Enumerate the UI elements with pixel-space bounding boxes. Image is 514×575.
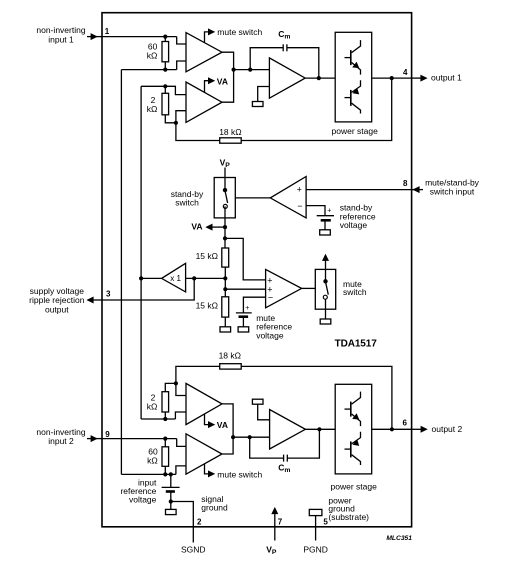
- wire VA arrow left: [205, 224, 225, 231]
- wire Cm branch ch2: [250, 437, 284, 458]
- label supply voltage ripple rejection output: [29, 286, 85, 314]
- wire divider mid to x1 buffer: [141, 277, 225, 279]
- wire pin 3: [102, 278, 194, 300]
- svg-text:ground: ground: [201, 503, 228, 513]
- wire VA rail to 2k top: [141, 85, 165, 87]
- wire pin 5 PGND: [315, 516, 317, 541]
- resistor R8 60 kOhm body ch2: [162, 439, 169, 475]
- wire external output 2 with arrow: [412, 426, 428, 433]
- wire external mute/stand-by input with arrow: [412, 186, 423, 193]
- ground symbol mute reference: [238, 327, 249, 332]
- mute switch open contact: [323, 295, 327, 299]
- node pin9 label: non-inverting input 2: [36, 427, 85, 446]
- mute switch contact dot: [323, 279, 327, 283]
- node junction link ch2: [231, 435, 235, 439]
- wire Cm to output ch2: [287, 429, 319, 458]
- svg-text:mute switch: mute switch: [217, 469, 262, 479]
- wire power stage to pin 6: [372, 428, 412, 430]
- node junction VA: [223, 225, 227, 229]
- resistor R7 2 kOhm body ch2: [162, 383, 176, 419]
- svg-text:output 1: output 1: [431, 73, 462, 83]
- transistor Q4 PNP ch2: [345, 432, 361, 465]
- node junction Cm tap ch2: [248, 435, 252, 439]
- svg-text:1: 1: [105, 27, 110, 36]
- node junction 60k bottom: [163, 68, 167, 72]
- node junction output 1: [390, 76, 394, 80]
- op-amp A6 power op-amp ch2: [270, 410, 306, 450]
- node junction link: [232, 68, 236, 72]
- capacitor input reference voltage: [162, 487, 180, 509]
- wire A1/A2 output link: [222, 52, 234, 102]
- label mute reference voltage: [256, 313, 292, 341]
- resistor R2 2 kOhm body: [162, 86, 176, 123]
- op-amp A1 input stage 1: [186, 33, 222, 72]
- wire mute switch control arrow ch1: [205, 28, 216, 42]
- svg-text:kΩ: kΩ: [147, 401, 158, 411]
- svg-text:x 1: x 1: [170, 274, 181, 283]
- wire rail B left (VA bias bus): [140, 86, 142, 419]
- wire power stage to pin 4: [372, 77, 412, 79]
- wire divider lower to mute comparator: [225, 288, 265, 290]
- label input reference voltage: [120, 478, 157, 505]
- label stand-by reference voltage: [340, 203, 376, 231]
- wire jog to op-amp A1 + input: [177, 37, 186, 44]
- node junction signal ground tap: [169, 499, 173, 503]
- resistor R5 15 kOhm body: [222, 289, 229, 327]
- svg-text:voltage: voltage: [129, 494, 157, 504]
- wire jog to op-amp A1 - input: [177, 61, 186, 70]
- svg-text:power stage: power stage: [331, 481, 378, 491]
- svg-text:+: +: [327, 208, 331, 215]
- wire feedback to output 2: [241, 366, 392, 429]
- svg-text:6: 6: [403, 419, 408, 428]
- svg-text:input 2: input 2: [48, 436, 74, 446]
- wire switch to VA node: [224, 206, 226, 248]
- wire feedback ch2: [176, 366, 220, 383]
- transistor Q1 NPN ch1: [345, 40, 361, 75]
- node junction Cm tap ch1: [248, 68, 252, 72]
- node junction 2k bottom ch2: [163, 417, 167, 421]
- node junction Cm output ch2: [317, 427, 321, 431]
- stand-by switch contact dot: [223, 188, 227, 192]
- op-amp A3 power op-amp ch1: [269, 58, 305, 98]
- wire power amp out to power stage ch2: [305, 428, 335, 430]
- wire Cm to output ch1: [287, 48, 319, 78]
- wire pin 8 input: [306, 189, 412, 191]
- resistor R3 18 kOhm body: [220, 138, 242, 143]
- wire signal ground to pin 2: [171, 502, 194, 543]
- svg-text:15 kΩ: 15 kΩ: [196, 251, 218, 261]
- svg-text:VA: VA: [191, 222, 202, 232]
- node junction inverting ch1: [174, 121, 178, 125]
- ground symbol power amp ch2: [252, 399, 263, 404]
- svg-text:+: +: [297, 185, 302, 195]
- wire 60k bottom feedback ch2: [121, 473, 175, 475]
- wire ground stub power amp ch2: [258, 404, 270, 420]
- ground symbol stand-by reference: [320, 230, 331, 235]
- svg-text:switch: switch: [343, 287, 367, 297]
- svg-text:voltage: voltage: [340, 220, 368, 230]
- wire Cm branch ch1: [250, 48, 283, 70]
- svg-text:output 2: output 2: [432, 424, 463, 434]
- node junction input1: [163, 35, 167, 39]
- wire jog to op-amp A4 + input: [175, 412, 186, 419]
- wire jog to op-amp A2 + input: [165, 86, 186, 94]
- wire pin 7 VP with arrow: [271, 507, 278, 541]
- wire VA control arrow ch1: [205, 77, 216, 92]
- label stand-by switch: [171, 189, 204, 208]
- power ground symbol PGND: [309, 509, 322, 515]
- wire feedback ch1: [176, 123, 220, 141]
- svg-text:power stage: power stage: [332, 126, 379, 136]
- svg-text:−: −: [297, 201, 302, 211]
- node junction input2: [163, 437, 167, 441]
- value label 2 kOhm ch2: [147, 392, 158, 411]
- wire to power amp 2: [233, 436, 270, 438]
- node junction Cm output ch1: [317, 76, 321, 80]
- svg-text:kΩ: kΩ: [147, 104, 158, 114]
- svg-text:9: 9: [105, 430, 110, 439]
- node junction input reference tap: [169, 472, 173, 476]
- ground symbol input reference: [166, 509, 177, 514]
- wire feedback to output 1: [241, 78, 392, 140]
- op-amp U3 x1 buffer: [162, 263, 186, 292]
- svg-text:VA: VA: [217, 420, 228, 430]
- svg-text:TDA1517: TDA1517: [335, 338, 378, 349]
- node junction inverting ch2: [174, 381, 178, 385]
- svg-text:SGND: SGND: [181, 545, 206, 555]
- resistor R4 15 kOhm body: [222, 248, 229, 289]
- svg-text:(substrate): (substrate): [328, 512, 369, 522]
- wire rail B to 2k bottom ch2: [141, 418, 175, 420]
- svg-text:8: 8: [403, 179, 408, 188]
- transistor Q3 NPN ch2: [345, 392, 361, 427]
- transistor Q2 PNP ch1: [345, 80, 361, 113]
- op-amp U2 stand-by comparator: [270, 177, 306, 218]
- value label 60 kOhm ch2: [147, 447, 158, 466]
- node junction pin3 tap: [192, 276, 196, 280]
- wire external input 2 with arrow: [87, 435, 102, 442]
- svg-text:2: 2: [197, 518, 202, 527]
- stand-by switch lever: [225, 191, 228, 204]
- node junction output 2: [390, 427, 394, 431]
- capacitor Cm ch1: [283, 44, 287, 51]
- wire U4 output to mute switch: [302, 287, 316, 289]
- wire U4 - input to mute reference: [243, 297, 265, 313]
- svg-text:MLC351: MLC351: [386, 535, 412, 542]
- label signal ground: [201, 494, 228, 512]
- wire A4/A5 output link: [222, 404, 233, 454]
- power stage box ch1: [335, 32, 372, 122]
- wire external ripple rejection with arrow: [86, 297, 102, 304]
- svg-text:7: 7: [278, 518, 283, 527]
- resistor R1 60 kOhm body: [162, 37, 169, 70]
- svg-text:kΩ: kΩ: [147, 456, 158, 466]
- wire external output 1 with arrow: [412, 75, 428, 82]
- wire stub to op-amp A5 - input: [176, 466, 186, 475]
- battery stand-by reference voltage: [317, 208, 334, 230]
- value label 2 kOhm: [147, 95, 158, 114]
- wire mute switch to ground: [325, 299, 327, 319]
- ground symbol mute switch: [320, 319, 331, 324]
- wire ground stub power amp ch1: [258, 87, 270, 102]
- wire input 1: [102, 36, 177, 38]
- wire input reference capacitor: [170, 474, 172, 487]
- wire stand-by switch to comparator: [235, 197, 270, 199]
- wire jog to op-amp A5 + input: [177, 439, 186, 447]
- wire mute switch arrow up: [322, 254, 329, 282]
- svg-text:18 kΩ: 18 kΩ: [219, 350, 241, 360]
- wire VP to stand-by switch: [224, 168, 226, 191]
- label power ground (substrate): [328, 495, 369, 522]
- resistor R6 18 kOhm body ch2: [220, 364, 242, 369]
- stand-by switch open contact: [223, 204, 227, 208]
- op-amp A5 input stage 2: [186, 434, 222, 474]
- value label 60 kOhm: [147, 42, 158, 61]
- node junction x1 output on rail B: [139, 276, 143, 280]
- IC boundary box: [102, 13, 412, 527]
- svg-text:input 1: input 1: [48, 34, 74, 44]
- svg-text:output: output: [45, 304, 69, 314]
- stand-by switch box S1: [214, 178, 235, 218]
- capacitor Cm ch2: [284, 455, 288, 462]
- svg-text:switch input: switch input: [430, 187, 475, 197]
- svg-text:−: −: [268, 293, 273, 303]
- op-amp A4 input stage 2: [186, 383, 222, 424]
- mute switch box S2: [315, 269, 335, 309]
- label mute switch box: [343, 279, 367, 297]
- op-amp U4 mute comparator: [266, 269, 302, 307]
- wire 60k bottom feedback: [121, 69, 176, 71]
- wire mute switch control arrow ch2: [205, 464, 216, 478]
- power stage box ch2: [335, 384, 372, 474]
- svg-text:15 kΩ: 15 kΩ: [196, 300, 218, 310]
- svg-text:kΩ: kΩ: [147, 51, 158, 61]
- ground symbol power amp ch1: [252, 102, 263, 107]
- node junction mute comparator feed: [223, 236, 227, 240]
- svg-text:4: 4: [403, 68, 408, 77]
- wire power amp out to power stage ch1: [305, 77, 335, 79]
- ground symbol divider: [220, 327, 231, 332]
- op-amp A2 input stage 1: [186, 82, 222, 122]
- wire input 2: [102, 438, 177, 440]
- wire VA control arrow ch2: [205, 414, 216, 428]
- wire stub to op-amp A4 - input: [176, 383, 186, 395]
- label mute/stand-by switch input: [425, 177, 480, 196]
- wire to mute comparator + input: [225, 238, 266, 280]
- battery mute reference voltage: [236, 305, 252, 327]
- wire to power amp 1: [234, 69, 270, 71]
- svg-text:+: +: [245, 305, 249, 312]
- svg-text:voltage: voltage: [256, 330, 284, 340]
- svg-text:PGND: PGND: [303, 545, 328, 555]
- mute switch lever: [326, 282, 329, 295]
- node pin1 label: non-inverting input 1: [36, 25, 85, 44]
- wire external input 1 with arrow: [87, 33, 102, 40]
- node junction divider lower: [223, 287, 227, 291]
- wire U2 - input to reference: [306, 206, 325, 216]
- svg-text:mute switch: mute switch: [217, 27, 262, 37]
- wire rail A left (60k feedback bus): [120, 70, 122, 475]
- node junction 2k top: [163, 84, 167, 88]
- node junction divider mid: [223, 276, 227, 280]
- svg-text:VA: VA: [217, 76, 228, 86]
- svg-text:switch: switch: [175, 198, 199, 208]
- svg-text:3: 3: [106, 289, 111, 298]
- wire stub to op-amp A2 - input: [176, 111, 186, 123]
- node junction 60k bottom ch2: [163, 472, 167, 476]
- svg-text:18 kΩ: 18 kΩ: [219, 127, 241, 137]
